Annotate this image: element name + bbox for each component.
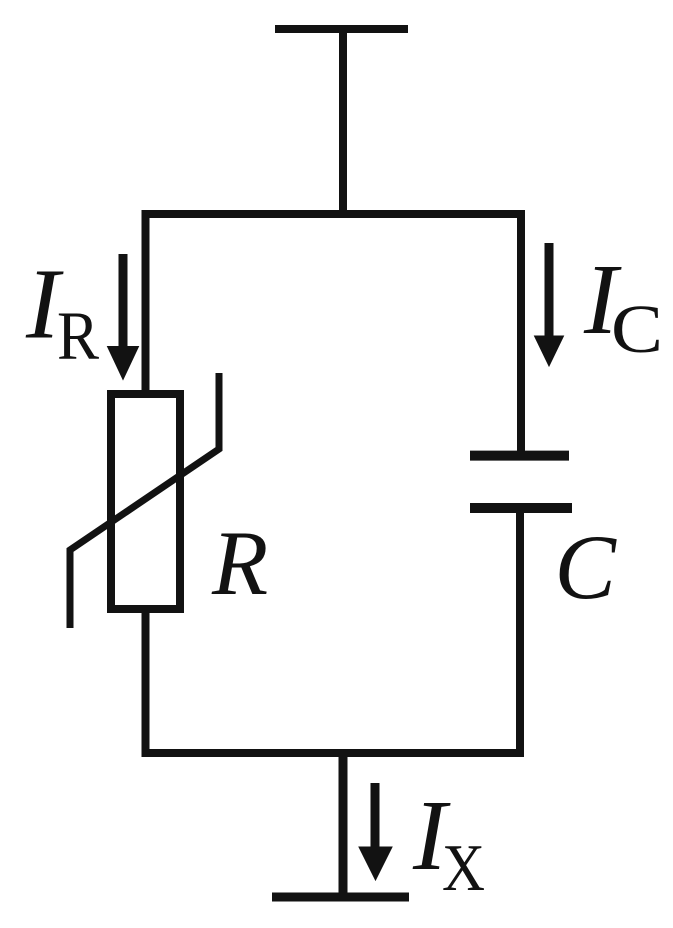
svg-text:R: R [211,512,268,614]
svg-text:C: C [611,291,663,367]
svg-text:X: X [442,831,485,905]
svg-text:C: C [555,516,618,618]
svg-text:R: R [57,298,99,374]
